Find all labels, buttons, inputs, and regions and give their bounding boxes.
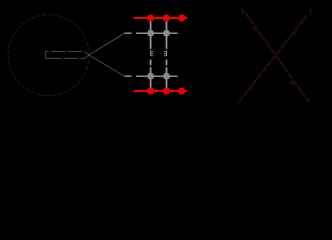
vertical link wire 1 upper segment: [150, 18, 152, 49]
upper grey bus line: [136, 32, 178, 34]
red node dot A1: [147, 14, 154, 21]
vertical link wire 1 lower segment: [150, 67, 152, 91]
lower grey bus line: [136, 75, 178, 77]
fan wire to upper bus: [89, 34, 124, 55]
red node dot D1: [147, 87, 154, 94]
red node dot A2: [163, 14, 170, 21]
bottom red bus line: [134, 90, 188, 92]
spin-up arrow left: [241, 9, 245, 16]
exchange arrow SE (top-left to bottom-right): [244, 11, 309, 102]
dashed circle (cavity boundary): [8, 15, 89, 96]
grey node dot C1: [147, 73, 154, 80]
vertical link wire 2 coupling comb: [164, 51, 167, 56]
red node dot D3: [178, 87, 185, 94]
fan wire to lower bus: [89, 55, 124, 76]
grey node dot B1: [147, 30, 154, 37]
red node dot D2: [163, 87, 170, 94]
waveguide tube bottom edge: [45, 57, 84, 59]
exchange arrow SE head mark: [251, 27, 295, 86]
spin-up arrow right: [309, 9, 313, 16]
waveguide tube top edge: [45, 51, 84, 53]
vertical link wire 2 lower segment: [166, 67, 168, 91]
vertical link wire 2 upper segment: [166, 18, 168, 49]
lower grey bus lead dash: [124, 75, 131, 77]
vertical link wire 1 coupling comb: [151, 51, 154, 56]
waveguide tube left cap: [44, 52, 46, 59]
waveguide tube right taper: [85, 52, 90, 59]
red node dot A3: [178, 14, 185, 21]
top red bus line: [134, 17, 188, 19]
vertical link wire 2 mid dash: [166, 60, 168, 66]
grey node dot C2: [163, 73, 170, 80]
exchange arrow NE head mark: [248, 31, 299, 93]
grey node dot B2: [163, 30, 170, 37]
upper grey bus lead dash: [124, 32, 131, 34]
exchange arrow NE (bottom-left to top-right): [238, 16, 307, 104]
vertical link wire 1 mid dash: [150, 60, 152, 66]
